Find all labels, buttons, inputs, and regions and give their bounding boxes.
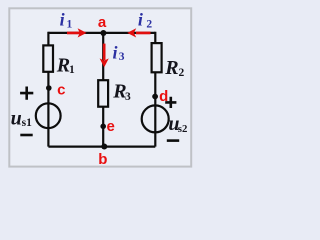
svg-text:2: 2 bbox=[146, 19, 152, 31]
polarity minus sign of us2 bbox=[167, 139, 179, 142]
svg-text:c: c bbox=[57, 82, 65, 99]
wire middle branch vertical through R3 bbox=[102, 33, 104, 147]
svg-text:i: i bbox=[60, 9, 65, 29]
svg-text:d: d bbox=[159, 88, 168, 105]
svg-text:1: 1 bbox=[67, 19, 73, 31]
svg-text:3: 3 bbox=[125, 91, 131, 103]
wire left branch vertical through R1 and us1 bbox=[47, 32, 49, 147]
resistor R1 body bbox=[43, 45, 53, 71]
svg-text:R: R bbox=[56, 54, 70, 76]
label i3 current name bbox=[113, 43, 125, 63]
polarity plus sign of us2 bbox=[165, 97, 176, 108]
wire bottom from us1 to us2 bbox=[48, 146, 155, 148]
label R2 resistor name bbox=[164, 57, 184, 79]
polarity plus sign of us1 bbox=[20, 87, 33, 100]
svg-text:i: i bbox=[138, 9, 143, 29]
wire right branch vertical through R2 and us2 bbox=[154, 32, 156, 147]
node c junction dot bbox=[46, 85, 52, 91]
node e junction dot bbox=[100, 124, 106, 130]
label R1 resistor name bbox=[56, 54, 75, 76]
resistor R2 body bbox=[152, 43, 162, 72]
current arrow i2 on top wire pointing left bbox=[127, 28, 150, 37]
current arrow i1 on top wire pointing right bbox=[67, 28, 87, 37]
svg-text:s2: s2 bbox=[178, 123, 188, 135]
voltage source us2 circle bbox=[142, 105, 169, 132]
svg-text:u: u bbox=[11, 107, 22, 129]
svg-text:b: b bbox=[98, 151, 107, 168]
svg-text:1: 1 bbox=[69, 64, 75, 76]
label R3 resistor name bbox=[112, 81, 131, 103]
node b junction dot bbox=[101, 144, 107, 150]
svg-text:i: i bbox=[113, 43, 118, 63]
current arrow i3 on middle branch pointing down bbox=[100, 44, 109, 68]
label i1 current name bbox=[60, 9, 73, 30]
svg-text:2: 2 bbox=[179, 67, 185, 79]
node d junction dot bbox=[152, 94, 158, 100]
label us2 source voltage bbox=[168, 113, 187, 135]
resistor R3 body bbox=[98, 80, 108, 107]
svg-text:3: 3 bbox=[119, 51, 125, 63]
label us1 source voltage bbox=[11, 107, 32, 129]
label i2 current name bbox=[138, 9, 153, 30]
svg-text:s1: s1 bbox=[22, 117, 32, 129]
voltage source us1 circle bbox=[36, 103, 61, 128]
svg-text:R: R bbox=[164, 57, 178, 79]
node a junction dot bbox=[100, 30, 106, 36]
wire top from node above us1 to node above us2 bbox=[48, 32, 155, 34]
polarity minus sign of us1 bbox=[20, 134, 32, 137]
svg-text:a: a bbox=[98, 14, 107, 31]
svg-text:e: e bbox=[107, 118, 115, 135]
